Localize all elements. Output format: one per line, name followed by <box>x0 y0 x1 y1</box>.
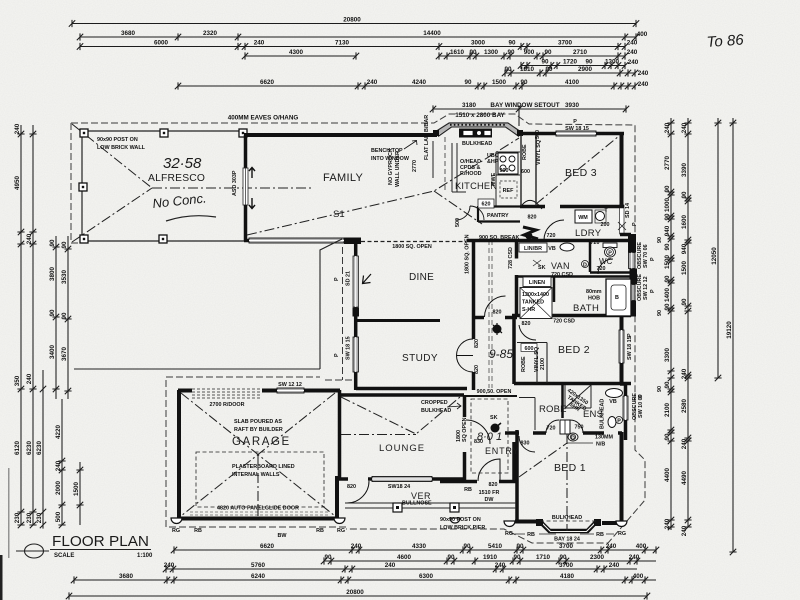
utility east wall protruding <box>620 235 631 315</box>
right dim col B segments <box>681 118 692 536</box>
svg-text:2710: 2710 <box>573 49 588 56</box>
svg-text:3700: 3700 <box>559 543 574 550</box>
svg-text:4180: 4180 <box>560 573 575 580</box>
lounge south window SW18 24 <box>372 477 432 482</box>
alfresco post 2 <box>160 129 168 137</box>
svg-text:BULKHEAD: BULKHEAD <box>600 399 606 429</box>
bed1 bay walls <box>540 522 597 532</box>
linen closet <box>523 277 551 287</box>
eaves overhang dashed outline <box>71 114 645 543</box>
svg-text:600: 600 <box>525 346 534 352</box>
eaves alfresco left dashed <box>71 123 82 243</box>
sliding door arrows <box>249 168 255 209</box>
svg-text:820: 820 <box>474 365 480 374</box>
garage north window SW 12 12 <box>277 388 304 393</box>
svg-text:CROPPED: CROPPED <box>421 400 448 406</box>
svg-text:3530: 3530 <box>61 270 68 285</box>
left dim col 90/3800/90/3400 mid <box>49 236 60 399</box>
veranda edge lines <box>345 503 516 508</box>
lounge south wall <box>338 477 464 481</box>
ens east window obscure SW 10 09 <box>623 396 628 420</box>
svg-text:4950: 4950 <box>14 176 21 191</box>
garage corner posts round <box>171 518 460 524</box>
svg-text:240: 240 <box>14 123 21 134</box>
ldry tub <box>596 212 605 221</box>
svg-text:820: 820 <box>489 482 498 488</box>
svg-text:R/HOOD: R/HOOD <box>460 171 482 177</box>
svg-text:90: 90 <box>504 66 512 73</box>
svg-text:2770: 2770 <box>412 160 418 172</box>
svg-text:32·58: 32·58 <box>163 155 202 172</box>
ens door arc and label <box>570 420 583 433</box>
kitchen-van wall <box>467 239 631 243</box>
svg-text:500: 500 <box>55 511 62 522</box>
alfresco post 1 <box>80 129 88 137</box>
svg-text:1910: 1910 <box>483 554 498 561</box>
bed2 robe closet <box>517 343 547 384</box>
svg-text:4600: 4600 <box>397 554 412 561</box>
svg-text:90: 90 <box>681 298 688 306</box>
svg-text:90: 90 <box>520 79 528 86</box>
svg-text:RB: RB <box>596 532 604 538</box>
bed3 roof dash-dot <box>536 136 619 204</box>
svg-text:BAY WINDOW SETOUT: BAY WINDOW SETOUT <box>490 102 559 109</box>
fridge dashed box <box>500 181 517 198</box>
svg-text:6620: 6620 <box>260 543 275 550</box>
svg-text:240: 240 <box>606 543 617 550</box>
family west wall lower <box>244 205 250 241</box>
svg-text:240: 240 <box>681 122 688 133</box>
svg-text:90: 90 <box>657 237 663 243</box>
svg-text:FAMILY: FAMILY <box>323 172 363 184</box>
bed3 east wall <box>620 133 624 205</box>
svg-text:BAY 18 24: BAY 18 24 <box>554 537 580 543</box>
svg-text:900: 900 <box>500 168 509 174</box>
svg-text:620: 620 <box>482 202 491 208</box>
bed2 east window SW 18 15 <box>619 330 624 363</box>
svg-text:240: 240 <box>627 49 638 56</box>
svg-text:2320: 2320 <box>203 30 218 37</box>
svg-text:720: 720 <box>591 240 600 246</box>
svg-text:1500: 1500 <box>664 255 671 270</box>
svg-text:1:100: 1:100 <box>137 553 153 559</box>
svg-text:820: 820 <box>528 215 537 221</box>
ens east wall <box>620 384 626 440</box>
svg-text:1500: 1500 <box>73 482 80 497</box>
svg-text:830: 830 <box>474 439 483 445</box>
bed2 east wall <box>620 314 624 384</box>
svg-text:ROBE: ROBE <box>539 404 567 415</box>
dashes RG to RB <box>515 533 614 535</box>
svg-text:ROBE: ROBE <box>521 356 527 372</box>
family west wall upper <box>244 135 248 168</box>
svg-text:P: P <box>650 257 656 261</box>
ldry door arc <box>544 220 564 240</box>
svg-text:90: 90 <box>463 543 471 550</box>
bed1 east wall <box>602 432 622 524</box>
svg-text:2770: 2770 <box>664 156 671 171</box>
svg-text:200: 200 <box>601 222 610 228</box>
svg-text:P: P <box>627 333 633 337</box>
svg-text:90: 90 <box>657 386 663 392</box>
svg-text:RG: RG <box>337 528 345 534</box>
bed1 west wall <box>515 430 519 523</box>
svg-text:830: 830 <box>521 441 530 447</box>
svg-text:PLASTERBOARD LINED: PLASTERBOARD LINED <box>232 464 295 470</box>
dine west door SD 21 <box>353 256 359 307</box>
svg-text:RB: RB <box>194 528 202 534</box>
bed1 south wall west part <box>515 520 540 524</box>
svg-text:820: 820 <box>474 339 480 348</box>
bed2 door arc <box>519 325 536 340</box>
svg-text:SCALE: SCALE <box>54 553 74 559</box>
bay setout drop line <box>518 109 520 126</box>
svg-text:ASD 303P: ASD 303P <box>232 170 238 196</box>
svg-text:90: 90 <box>681 191 688 199</box>
dine-study west wall <box>354 244 358 390</box>
svg-text:1200x1400: 1200x1400 <box>522 292 549 298</box>
title bubble ellipse <box>25 544 44 558</box>
svg-text:P: P <box>638 394 644 398</box>
svg-text:240: 240 <box>164 562 175 569</box>
svg-text:P: P <box>632 222 638 226</box>
dim row bottom overall 20800 <box>66 589 650 600</box>
ink blob hall <box>493 325 502 334</box>
svg-text:728 CSD: 728 CSD <box>508 247 514 269</box>
ink blob entry <box>491 424 500 433</box>
svg-text:BATH: BATH <box>573 303 599 314</box>
svg-text:SW 18 15: SW 18 15 <box>627 336 633 360</box>
svg-text:720 CSD: 720 CSD <box>553 319 575 325</box>
svg-text:720 CSD: 720 CSD <box>551 272 573 278</box>
svg-text:SW 12 12: SW 12 12 <box>643 276 649 300</box>
svg-text:D: D <box>583 263 587 269</box>
svg-text:230: 230 <box>26 512 33 523</box>
svg-text:240: 240 <box>26 233 33 244</box>
svg-text:SW 18 15: SW 18 15 <box>346 336 352 360</box>
svg-text:7130: 7130 <box>335 39 350 46</box>
svg-text:BED 2: BED 2 <box>558 344 590 356</box>
svg-text:400: 400 <box>636 543 647 550</box>
van west wall <box>515 241 519 317</box>
dim row 90/1720/90/1300/240 <box>518 58 628 69</box>
study-lounge wall <box>356 387 467 391</box>
svg-text:240: 240 <box>55 460 62 471</box>
svg-text:2000: 2000 <box>55 481 62 496</box>
svg-text:90: 90 <box>464 79 472 86</box>
svg-text:INTERNAL WALLS: INTERNAL WALLS <box>232 472 280 478</box>
lounge north wall <box>338 393 464 397</box>
dim row 1610/90/1300/90/900/90/2710/240 <box>436 49 628 60</box>
svg-text:3930: 3930 <box>565 102 580 109</box>
entry top opening line <box>466 395 517 397</box>
svg-text:720: 720 <box>547 233 556 239</box>
svg-text:400MM EAVES O/HANG: 400MM EAVES O/HANG <box>228 115 299 122</box>
svg-text:&HP: &HP <box>487 159 499 165</box>
svg-text:SW18 24: SW18 24 <box>388 484 410 490</box>
svg-text:90: 90 <box>664 381 671 389</box>
left dim col 4220/240/2000/500 <box>55 399 66 528</box>
bed1 roof dash-dot <box>519 434 567 531</box>
svg-text:SQ OPEN: SQ OPEN <box>462 417 468 442</box>
window obscure SW 12 12 <box>628 285 635 301</box>
svg-text:5760: 5760 <box>251 562 266 569</box>
study west window SW 18 15 <box>353 337 359 372</box>
laundry sliding door opening east <box>620 205 625 234</box>
svg-text:90: 90 <box>664 243 671 251</box>
svg-text:RG: RG <box>618 531 626 537</box>
garage panelglide door dashed <box>190 512 330 515</box>
entry door arc upper <box>466 420 490 444</box>
svg-text:240: 240 <box>681 438 688 449</box>
svg-text:400: 400 <box>637 31 648 38</box>
svg-text:500: 500 <box>535 130 541 139</box>
veranda posts <box>393 503 402 512</box>
svg-text:240: 240 <box>351 543 362 550</box>
svg-text:P: P <box>608 251 612 257</box>
family top wall <box>244 133 437 137</box>
entry south wall <box>440 442 516 482</box>
svg-text:90: 90 <box>507 49 515 56</box>
alfresco post 5 <box>159 235 167 243</box>
svg-text:RAFT BY BUILDER: RAFT BY BUILDER <box>234 427 283 433</box>
svg-text:P: P <box>334 277 340 281</box>
alfresco post 6 <box>239 129 247 137</box>
label 600 box bed2 <box>521 344 537 352</box>
svg-text:RB: RB <box>527 532 535 538</box>
svg-text:ROBE: ROBE <box>522 144 528 160</box>
dashed bulkhead line bay <box>540 520 597 522</box>
wc toilet <box>603 243 617 248</box>
svg-text:240: 240 <box>495 562 506 569</box>
robe-bed1 wall <box>505 431 622 435</box>
bay window kitchen sink unit <box>459 129 492 138</box>
svg-text:REF: REF <box>503 188 514 194</box>
svg-text:D: D <box>571 436 575 442</box>
svg-text:2900: 2900 <box>578 66 593 73</box>
svg-text:DINE: DINE <box>409 272 434 283</box>
svg-text:350: 350 <box>14 375 21 386</box>
lin-br closet <box>519 243 547 252</box>
svg-text:SD 21: SD 21 <box>346 271 352 286</box>
svg-text:4330: 4330 <box>412 543 427 550</box>
bed1 door arc <box>519 436 535 452</box>
svg-text:1610: 1610 <box>450 49 465 56</box>
svg-text:ENTRY: ENTRY <box>485 446 519 456</box>
svg-text:3700: 3700 <box>559 562 574 569</box>
svg-text:90: 90 <box>664 213 671 221</box>
family south window <box>249 238 344 243</box>
svg-text:RG: RG <box>505 531 513 537</box>
svg-text:90: 90 <box>664 433 671 441</box>
svg-text:90: 90 <box>544 49 552 56</box>
right dim col A small segments <box>664 118 675 530</box>
svg-text:3400: 3400 <box>49 345 56 360</box>
svg-text:6240: 6240 <box>251 573 266 580</box>
pantry walls <box>478 206 520 222</box>
svg-text:P: P <box>650 289 656 293</box>
garage roller door dashed <box>192 389 262 398</box>
handwriting underline swoosh <box>166 216 216 221</box>
svg-text:HOB: HOB <box>588 296 600 302</box>
dim row bay window setout 3180/3930 <box>430 102 629 113</box>
svg-text:LOUNGE: LOUNGE <box>379 443 425 454</box>
svg-text:80mm: 80mm <box>586 289 602 295</box>
hall door arc bed2 <box>485 296 506 317</box>
svg-text:LINEN: LINEN <box>529 280 545 286</box>
svg-text:2100: 2100 <box>540 358 546 370</box>
svg-text:3300: 3300 <box>664 348 671 363</box>
svg-text:S-HR: S-HR <box>522 307 535 313</box>
svg-text:RG: RG <box>172 528 180 534</box>
svg-text:90x90 POST ON: 90x90 POST ON <box>97 137 138 143</box>
svg-text:P: P <box>334 353 340 357</box>
left dim col inner 240/6230/230 <box>26 125 37 528</box>
dim row bottom 90/4600/90 + 1910/90/1710/90/2300/240 <box>321 554 656 565</box>
bay window kitchen walls <box>436 125 520 134</box>
garage roof dash-dot X <box>181 393 335 516</box>
garage west wall <box>177 390 181 520</box>
left dim col 6230/230 third <box>36 370 46 529</box>
svg-text:5410: 5410 <box>488 543 503 550</box>
family roof dash-dot <box>247 138 519 235</box>
ens wc <box>608 417 616 428</box>
svg-text:12050: 12050 <box>711 247 718 265</box>
title underline <box>50 549 151 551</box>
svg-text:RB: RB <box>464 487 472 493</box>
svg-text:3180: 3180 <box>462 102 477 109</box>
svg-text:1300: 1300 <box>484 49 499 56</box>
svg-text:P: P <box>617 419 621 425</box>
svg-text:LOW BRICK PIER: LOW BRICK PIER <box>440 525 485 531</box>
svg-text:TANKED: TANKED <box>522 300 544 306</box>
svg-text:6000: 6000 <box>154 39 169 46</box>
svg-text:90: 90 <box>447 554 455 561</box>
ldry wm box <box>575 210 592 223</box>
svg-text:DW: DW <box>485 497 495 503</box>
bed3 west wall and robe <box>521 135 536 206</box>
svg-text:B: B <box>615 295 619 301</box>
svg-text:BED 1: BED 1 <box>554 462 586 474</box>
svg-text:BULKHEAD: BULKHEAD <box>421 408 451 414</box>
alfresco hip roof dash-dot lines <box>72 124 311 242</box>
svg-text:240: 240 <box>26 373 33 384</box>
pantry door arc <box>456 206 484 220</box>
svg-text:SD 14: SD 14 <box>625 203 631 218</box>
svg-text:90: 90 <box>664 185 671 193</box>
svg-text:6230: 6230 <box>36 441 43 456</box>
eaves garage dashed <box>166 377 356 527</box>
svg-text:600: 600 <box>521 169 530 175</box>
dim row 4300 <box>242 49 359 60</box>
left dim col outer 240/4950/240/350/6120/230 <box>14 123 25 528</box>
svg-text:1720: 1720 <box>563 58 578 65</box>
dim row bottom 3680/6240/6300/4180/400 <box>71 573 656 584</box>
svg-text:PANTRY: PANTRY <box>487 213 509 219</box>
svg-text:240: 240 <box>629 554 640 561</box>
svg-text:130MM: 130MM <box>595 435 613 441</box>
svg-text:6120: 6120 <box>14 441 21 456</box>
svg-text:90: 90 <box>324 554 332 561</box>
svg-text:VAN: VAN <box>551 261 570 271</box>
ens shower box <box>565 385 591 408</box>
svg-text:500: 500 <box>455 218 461 227</box>
left dim col 90/3530/90/3670 mid2 <box>61 236 72 399</box>
svg-text:90x90 POST ON: 90x90 POST ON <box>440 517 481 523</box>
svg-text:VB: VB <box>548 246 556 252</box>
svg-text:VB: VB <box>609 399 617 405</box>
svg-text:240: 240 <box>254 39 265 46</box>
svg-text:240: 240 <box>681 525 688 536</box>
svg-text:240: 240 <box>627 40 638 47</box>
lounge west wall <box>338 390 342 480</box>
svg-text:SW 70 06: SW 70 06 <box>643 244 649 268</box>
alfresco post 3 <box>79 183 87 191</box>
arrow into dine <box>363 274 372 284</box>
ens basin <box>606 389 623 398</box>
svg-text:14400: 14400 <box>423 30 441 37</box>
svg-text:FLOOR PLAN: FLOOR PLAN <box>52 533 149 550</box>
svg-text:90: 90 <box>559 554 567 561</box>
robe-ens divider <box>561 384 564 418</box>
bed2-robe wall <box>514 382 631 386</box>
svg-text:1510 x 2800 BAY: 1510 x 2800 BAY <box>455 112 505 119</box>
svg-text:P: P <box>573 119 577 125</box>
scan edge bar bottom left <box>0 555 3 600</box>
svg-text:240: 240 <box>367 79 378 86</box>
svg-text:1710: 1710 <box>536 554 551 561</box>
svg-text:6230: 6230 <box>26 441 33 456</box>
svg-text:6300: 6300 <box>419 573 434 580</box>
svg-text:240: 240 <box>664 518 671 529</box>
svg-text:1500: 1500 <box>681 261 688 276</box>
entry bulkhead dashed rect <box>471 399 508 473</box>
alfresco post 4 <box>80 235 88 243</box>
svg-text:ALFRESCO: ALFRESCO <box>148 173 205 184</box>
dim row 90/1810/90/2900/240 <box>502 66 638 77</box>
svg-text:To 86: To 86 <box>706 31 745 51</box>
svg-text:2580: 2580 <box>681 399 688 414</box>
svg-text:WM: WM <box>578 215 588 221</box>
svg-text:19120: 19120 <box>726 321 733 339</box>
garage north wall <box>178 389 340 393</box>
bath-bed2 wall <box>512 314 631 318</box>
svg-text:90: 90 <box>585 58 593 65</box>
entry-lounge wall <box>463 395 467 481</box>
svg-text:230: 230 <box>36 512 43 523</box>
svg-text:1300: 1300 <box>605 58 620 65</box>
svg-text:240: 240 <box>628 59 639 66</box>
lounge roof dash-dot V <box>341 397 460 435</box>
dim row 3680/2320/14400/400 <box>77 30 639 41</box>
svg-text:4490: 4490 <box>681 471 688 486</box>
svg-text:240: 240 <box>681 368 688 379</box>
dim row bottom 240/5760/240/3700/240 <box>163 562 637 573</box>
robe door arc and label <box>546 420 559 433</box>
svg-text:230: 230 <box>14 512 21 523</box>
bed3 door arc <box>522 200 542 209</box>
svg-text:N/B: N/B <box>596 442 605 448</box>
svg-text:BULKHEAD: BULKHEAD <box>462 141 492 147</box>
svg-text:240: 240 <box>609 562 620 569</box>
svg-text:90: 90 <box>61 312 68 320</box>
svg-text:90: 90 <box>664 275 671 283</box>
court bottom line <box>74 368 320 370</box>
svg-text:1400: 1400 <box>664 288 671 303</box>
svg-text:SLAB POURED AS: SLAB POURED AS <box>234 419 282 425</box>
svg-text:90: 90 <box>49 239 56 247</box>
dim row 20800 overall top <box>69 16 639 27</box>
